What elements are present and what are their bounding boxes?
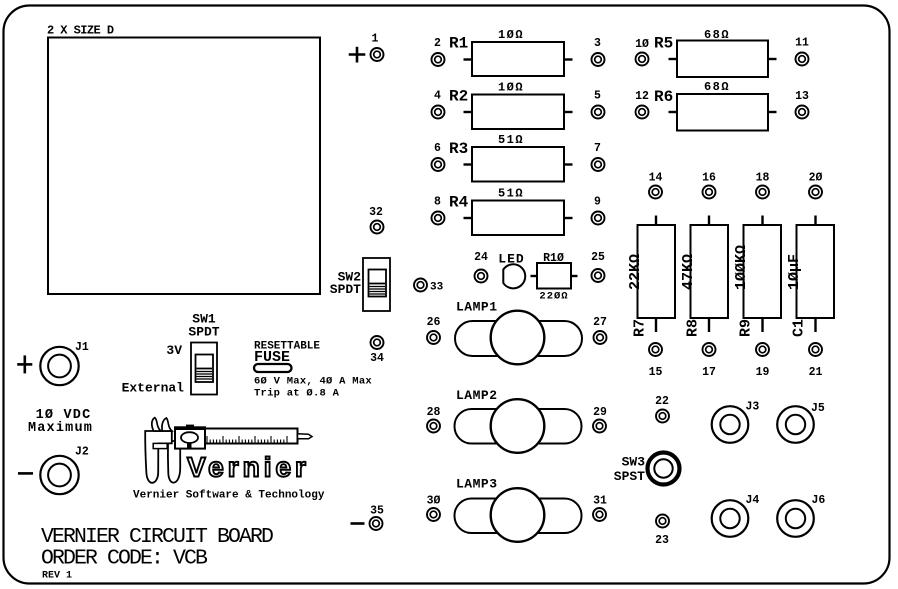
svg-text:REV 1: REV 1 — [42, 571, 72, 582]
terminal 32 — [369, 206, 383, 234]
wire R8 top lead — [708, 216, 710, 226]
terminal 25 — [591, 251, 605, 282]
terminal 13 — [795, 90, 809, 119]
svg-text:34: 34 — [370, 352, 384, 365]
svg-text:6Ø V Max, 4Ø A Max: 6Ø V Max, 4Ø A Max — [254, 376, 372, 388]
svg-text:J4: J4 — [746, 494, 760, 507]
terminal 12 — [635, 90, 649, 119]
jack J2 negative — [40, 446, 89, 495]
svg-text:32: 32 — [369, 206, 383, 219]
svg-text:18: 18 — [756, 172, 770, 185]
svg-text:J3: J3 — [746, 401, 760, 414]
wire R1 left lead — [464, 58, 473, 60]
svg-text:4: 4 — [434, 90, 441, 103]
svg-text:3V: 3V — [166, 343, 182, 358]
wire R7 top lead — [655, 216, 657, 226]
wire R6 right lead — [768, 111, 777, 113]
svg-text:3Ø: 3Ø — [427, 495, 441, 508]
svg-text:2: 2 — [434, 37, 441, 50]
svg-text:22KΩ: 22KΩ — [627, 254, 644, 290]
svg-text:22: 22 — [655, 395, 669, 408]
switch SW1 SPDT — [188, 312, 219, 395]
terminal 8 — [432, 196, 445, 225]
svg-text:1ØµF: 1ØµF — [786, 254, 803, 290]
resistor R1 10ohm — [449, 28, 564, 76]
terminal 3 — [592, 37, 605, 66]
svg-text:21: 21 — [809, 366, 823, 379]
svg-text:SPDT: SPDT — [330, 282, 361, 297]
wire R3 left lead — [464, 163, 473, 165]
resistor R3 51ohm — [449, 133, 564, 182]
svg-text:8: 8 — [434, 196, 441, 209]
svg-text:29: 29 — [593, 406, 607, 419]
svg-text:68Ω: 68Ω — [704, 28, 730, 42]
svg-text:3: 3 — [594, 37, 601, 50]
jack J4 — [712, 494, 760, 537]
svg-text:27: 27 — [593, 316, 607, 329]
resistor R7 22K vertical — [627, 225, 675, 337]
resistor R5 68ohm — [654, 28, 768, 77]
wire C1 top lead — [814, 216, 816, 226]
svg-text:SW3: SW3 — [622, 455, 646, 470]
jack J1 positive — [40, 341, 89, 385]
terminal 31 — [593, 495, 607, 522]
terminal 18 — [756, 172, 770, 199]
wire R10 right lead — [571, 275, 578, 277]
svg-text:1ØØKΩ: 1ØØKΩ — [733, 245, 750, 290]
svg-text:2 X SIZE D: 2 X SIZE D — [47, 24, 114, 38]
svg-text:J6: J6 — [812, 494, 826, 507]
svg-text:25: 25 — [591, 251, 605, 264]
svg-text:26: 26 — [427, 316, 441, 329]
wire R9 top lead — [761, 216, 763, 226]
svg-text:47KΩ: 47KΩ — [680, 254, 697, 290]
plus sign at J1 — [17, 355, 32, 373]
svg-text:SPST: SPST — [614, 469, 645, 484]
terminal 19 — [756, 343, 770, 379]
terminal 27 — [593, 316, 607, 344]
wire R1 right lead — [564, 58, 573, 60]
svg-text:J2: J2 — [75, 446, 89, 459]
resistor R10 220ohm — [537, 252, 571, 303]
svg-text:24: 24 — [474, 251, 488, 264]
svg-text:J1: J1 — [75, 341, 89, 354]
terminal 23 — [655, 515, 669, 548]
terminal 21 — [809, 343, 823, 379]
lamp LAMP3 — [455, 477, 582, 542]
resistor R9 100K vertical — [733, 225, 781, 337]
svg-text:LAMP3: LAMP3 — [456, 477, 498, 492]
svg-text:External: External — [122, 381, 185, 396]
terminal 15 — [649, 343, 663, 379]
terminal 34 — [370, 336, 384, 365]
wire R9 bottom lead — [761, 318, 763, 332]
terminal 1 — [371, 33, 384, 62]
svg-text:7: 7 — [594, 142, 601, 155]
wire R2 right lead — [564, 111, 573, 113]
svg-text:1ØΩ: 1ØΩ — [498, 81, 524, 95]
resistor R2 10ohm — [449, 81, 564, 130]
svg-text:17: 17 — [702, 366, 716, 379]
svg-text:33: 33 — [430, 282, 444, 294]
svg-text:ORDER CODE: VCB: ORDER CODE: VCB — [41, 547, 208, 571]
svg-text:5: 5 — [594, 90, 601, 103]
svg-text:11: 11 — [795, 37, 809, 50]
terminal 2 — [432, 37, 445, 66]
svg-text:Vernier Software & Technology: Vernier Software & Technology — [133, 490, 325, 502]
lamp LAMP1 — [455, 300, 582, 365]
terminal 33 — [414, 279, 444, 294]
terminal 16 — [702, 172, 716, 199]
svg-text:R3: R3 — [449, 140, 468, 158]
svg-text:2Ø: 2Ø — [809, 172, 823, 185]
svg-text:12: 12 — [635, 90, 649, 103]
svg-text:R4: R4 — [449, 194, 469, 212]
wire R4 right lead — [564, 217, 573, 219]
terminal 4 — [432, 90, 445, 119]
svg-text:Trip at Ø.8 A: Trip at Ø.8 A — [254, 388, 340, 400]
minus sign at terminal 35 — [351, 522, 365, 525]
svg-text:Maximum: Maximum — [28, 421, 93, 436]
svg-text:LAMP2: LAMP2 — [456, 388, 498, 403]
jack J6 — [777, 494, 825, 537]
wire R8 bottom lead — [708, 318, 710, 332]
svg-text:R7: R7 — [632, 319, 649, 337]
node 10 VDC Maximum label — [28, 408, 93, 436]
svg-text:1ØΩ: 1ØΩ — [498, 28, 524, 42]
breadboard area 2X SIZE D — [47, 24, 320, 295]
terminal 6 — [432, 142, 445, 171]
svg-text:R5: R5 — [654, 35, 673, 53]
svg-text:R2: R2 — [449, 88, 468, 106]
capacitor C1 10uF vertical — [786, 225, 834, 337]
svg-text:9: 9 — [594, 196, 601, 209]
resistor R4 51ohm — [449, 187, 564, 236]
lamp LAMP2 — [455, 388, 582, 453]
wire R4 left lead — [464, 217, 473, 219]
svg-text:35: 35 — [370, 505, 384, 518]
jack J5 — [777, 402, 825, 443]
svg-text:R1: R1 — [449, 35, 468, 53]
LED D1 — [498, 252, 525, 289]
vernier caliper logo — [145, 418, 312, 483]
svg-text:R6: R6 — [654, 88, 673, 106]
minus sign at J2 — [18, 472, 33, 475]
svg-text:14: 14 — [649, 172, 663, 185]
svg-text:SPDT: SPDT — [188, 325, 219, 340]
resistor R8 47K vertical — [680, 225, 728, 337]
terminal 24 — [474, 251, 488, 283]
svg-text:68Ω: 68Ω — [704, 80, 730, 94]
svg-text:LAMP1: LAMP1 — [456, 300, 498, 315]
wire R6 left lead — [669, 111, 678, 113]
svg-text:Vernier: Vernier — [187, 452, 310, 483]
wire R10 left lead — [531, 275, 538, 277]
svg-text:31: 31 — [593, 495, 607, 508]
svg-text:1: 1 — [372, 33, 379, 46]
svg-text:1Ø: 1Ø — [635, 38, 649, 51]
switch SW2 SPDT — [330, 258, 390, 311]
svg-text:6: 6 — [434, 142, 441, 155]
plus sign at terminal 1 — [349, 47, 366, 63]
terminal 5 — [592, 90, 605, 119]
svg-text:51Ω: 51Ω — [498, 187, 524, 201]
wire R3 right lead — [564, 163, 573, 165]
resistor R6 68ohm — [654, 80, 768, 131]
terminal 35 — [370, 505, 384, 531]
svg-text:VERNIER CIRCUIT BOARD: VERNIER CIRCUIT BOARD — [41, 525, 273, 549]
terminal 30 — [427, 495, 441, 522]
svg-text:16: 16 — [702, 172, 716, 185]
terminal 26 — [427, 316, 441, 344]
svg-text:R1Ø: R1Ø — [543, 252, 564, 265]
terminal 10 — [635, 38, 649, 66]
terminal 9 — [592, 196, 605, 225]
svg-text:R8: R8 — [685, 319, 702, 337]
svg-text:22ØΩ: 22ØΩ — [539, 291, 568, 303]
terminal 11 — [795, 37, 809, 66]
svg-text:23: 23 — [655, 534, 669, 547]
wire R5 right lead — [768, 58, 777, 60]
svg-text:28: 28 — [427, 406, 441, 419]
terminal 28 — [427, 406, 441, 433]
wire R2 left lead — [464, 111, 473, 113]
terminal 29 — [593, 406, 607, 433]
svg-text:R9: R9 — [738, 319, 755, 337]
svg-text:C1: C1 — [791, 319, 808, 337]
jack J3 — [712, 401, 760, 443]
resettable fuse F1 — [254, 341, 372, 400]
wire R5 left lead — [669, 58, 678, 60]
svg-text:15: 15 — [649, 366, 663, 379]
wire C1 bottom lead — [814, 318, 816, 332]
svg-text:19: 19 — [756, 366, 770, 379]
switch SW3 SPST pushbutton — [614, 453, 680, 485]
terminal 20 — [809, 172, 823, 199]
terminal 22 — [655, 395, 669, 423]
svg-text:51Ω: 51Ω — [498, 133, 524, 147]
svg-text:J5: J5 — [811, 402, 825, 415]
terminal 7 — [592, 142, 605, 171]
wire R7 bottom lead — [655, 318, 657, 332]
terminal 17 — [702, 343, 716, 379]
terminal 14 — [649, 172, 663, 199]
svg-text:13: 13 — [795, 90, 809, 103]
